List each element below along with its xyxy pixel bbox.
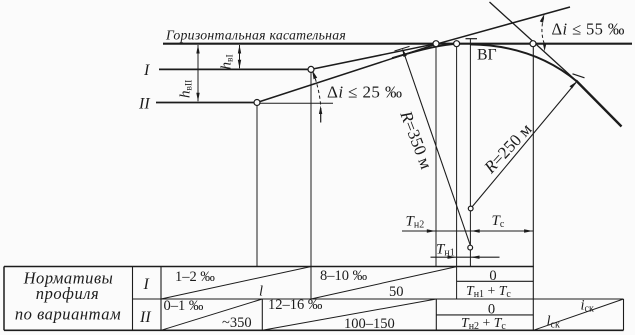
divider A2/B2 xyxy=(261,299,263,330)
angle arc 25 (dashed) xyxy=(313,72,321,105)
svg-text:Δi ≤ 25 ‰: Δi ≤ 25 ‰ xyxy=(327,83,402,102)
dimension hвII vertical arrow xyxy=(197,45,199,101)
vertical from curve end circle down through table row I xyxy=(456,47,458,299)
I/II column right edge xyxy=(160,267,162,331)
radius line R250 with arrow to curve xyxy=(471,83,576,209)
horizontal tangent line xyxy=(163,43,632,45)
svg-text:50: 50 xyxy=(389,284,404,300)
dimension line Tн1 xyxy=(431,256,500,258)
svg-text:II: II xyxy=(138,96,150,113)
svg-text:I: I xyxy=(143,62,150,79)
svg-text:Горизонтальная касательная: Горизонтальная касательная xyxy=(165,28,346,43)
arc 55 bottom stem with up arrowhead xyxy=(543,43,547,51)
vertical from vertex ВГ down to table xyxy=(469,39,471,267)
descent grade thick part (i ск) xyxy=(576,81,622,127)
cell B2 diagonal xyxy=(262,299,436,330)
tick at R250 tangent point xyxy=(573,74,585,78)
C2 internal divider xyxy=(436,314,533,316)
vertex mark ВГ cap tick xyxy=(466,38,478,40)
node circle grade break on tangent xyxy=(433,41,439,47)
svg-text:~350: ~350 xyxy=(222,315,252,331)
vertical from grade-break circle down to table xyxy=(435,47,437,267)
svg-text:12–16 ‰: 12–16 ‰ xyxy=(268,297,323,313)
vertical from II end circle down to table xyxy=(256,106,258,267)
svg-text:ВГ: ВГ xyxy=(477,47,497,64)
vertical from I end circle down through table row I xyxy=(310,72,312,299)
header text Нормативы профиля по вариантам xyxy=(15,269,121,324)
node circle descent break xyxy=(530,41,536,47)
arc 25 top arrowhead xyxy=(312,70,317,79)
divider B2/C2 xyxy=(435,299,437,330)
svg-text:I: I xyxy=(143,276,150,293)
dimension line Tн2 / Tс xyxy=(402,230,533,232)
svg-text:l: l xyxy=(259,284,263,300)
svg-text:по вариантам: по вариантам xyxy=(15,305,121,324)
node circle at end of line II xyxy=(254,100,260,106)
tick at R350 tangent point xyxy=(395,46,410,51)
row II right edge xyxy=(623,299,625,330)
svg-text:Тн2 + Тс: Тн2 + Тс xyxy=(461,315,506,332)
grade line beta (variant II tangent) xyxy=(257,7,570,103)
vertical from descent-break circle down to table xyxy=(532,47,534,331)
vertical curve R350 xyxy=(392,44,458,58)
grade line alpha (variant I tangent) xyxy=(311,44,436,70)
svg-text:Δi ≤ 55 ‰: Δi ≤ 55 ‰ xyxy=(552,20,625,39)
angle arc 55 (dashed) xyxy=(542,15,545,44)
center circle R250 xyxy=(468,206,473,211)
descent tangent Q thin part xyxy=(490,2,578,82)
arc 25 bottom stem with up arrowhead xyxy=(320,108,322,123)
node circle curve R350 end xyxy=(454,41,460,47)
cell D2 diagonal xyxy=(533,299,623,330)
radius line R350 with arrow to curve xyxy=(403,51,470,245)
svg-text:1–2 ‰: 1–2 ‰ xyxy=(175,269,215,285)
table outer borders xyxy=(4,266,534,268)
dimension hвI vertical arrow xyxy=(239,45,241,68)
svg-text:профиля: профиля xyxy=(36,284,99,303)
label R=350 м (rotated) xyxy=(396,107,436,171)
label R=250 м (rotated) xyxy=(480,119,536,177)
cell B1 diagonal xyxy=(311,267,457,299)
svg-text:100–150: 100–150 xyxy=(344,316,395,332)
label hвII (rotated) xyxy=(178,80,195,98)
line II xyxy=(156,102,257,104)
arc 55 top arrowhead xyxy=(540,14,545,23)
node circle at end of line I xyxy=(308,66,314,72)
svg-text:0–1 ‰: 0–1 ‰ xyxy=(164,298,204,314)
cell A2 diagonal xyxy=(161,299,262,330)
line I xyxy=(159,68,311,70)
svg-text:II: II xyxy=(139,309,151,326)
line II thin extension xyxy=(260,102,333,104)
cell A1 diagonal xyxy=(161,267,311,299)
svg-text:0: 0 xyxy=(489,268,496,284)
svg-text:8–10 ‰: 8–10 ‰ xyxy=(320,268,368,284)
row divider I/II xyxy=(133,298,624,300)
center circle R350 xyxy=(468,245,473,250)
C1 internal divider xyxy=(457,280,534,282)
vertical curve R250 xyxy=(470,44,577,81)
svg-text:Тн1 + Тс: Тн1 + Тс xyxy=(466,283,511,300)
label hвI (rotated) xyxy=(219,54,236,69)
header box right edge xyxy=(132,267,134,331)
